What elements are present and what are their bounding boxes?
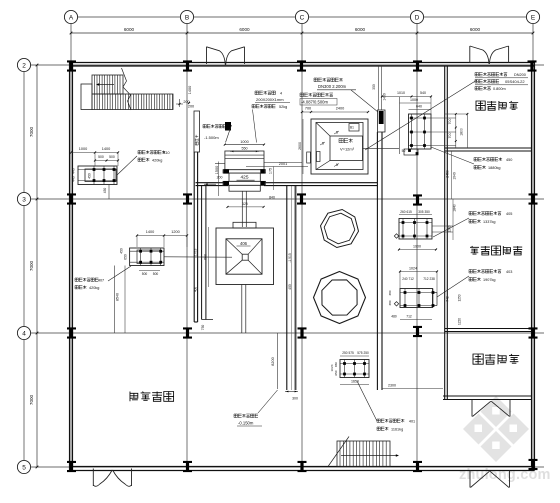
sump room inner: [316, 123, 363, 170]
leader 405: [433, 218, 469, 237]
foundation 450 bolts: [410, 117, 413, 120]
column C3: [297, 193, 306, 204]
svg-text:6000: 6000: [470, 27, 481, 32]
stair arrow line: [341, 455, 396, 457]
svg-text:300: 300: [292, 397, 298, 401]
pad 406 center square: [242, 254, 248, 260]
stair upper flight: [92, 75, 123, 94]
svg-text:840: 840: [269, 196, 275, 200]
foundation 410 grid lines: [93, 166, 95, 185]
svg-text:500: 500: [153, 272, 159, 276]
svg-text:1000: 1000: [79, 147, 87, 151]
foundation 407 inner: [137, 250, 161, 264]
grid bubble E: [526, 10, 539, 23]
top dimension chain: [71, 32, 533, 34]
foundation 450 dims: [382, 96, 431, 98]
octagon tank 1 outer: [321, 210, 359, 248]
svg-text:-4.087/0.500m: -4.087/0.500m: [301, 100, 329, 105]
svg-text:405: 405: [506, 212, 512, 216]
pipe left of motor: [215, 162, 225, 164]
room label maintenance area: [130, 392, 138, 402]
exterior wall top: [70, 62, 535, 64]
svg-text:550: 550: [242, 147, 248, 151]
svg-text:8540: 8540: [116, 293, 120, 301]
svg-text:05S404-22: 05S404-22: [505, 79, 525, 84]
svg-text:350: 350: [372, 84, 376, 90]
svg-text:1040: 1040: [453, 172, 457, 180]
wall W7 pump bay right: [286, 185, 288, 390]
grid line 5: [31, 466, 544, 468]
svg-text:E: E: [531, 15, 536, 22]
svg-text:260 615: 260 615: [400, 210, 412, 214]
column D4: [413, 326, 422, 337]
svg-text:407: 407: [98, 279, 104, 283]
note 450 pump: [474, 158, 502, 162]
door bottom A-B: [92, 469, 94, 487]
svg-text:401: 401: [409, 420, 415, 424]
svg-text:406: 406: [240, 241, 248, 246]
svg-text:1220: 1220: [458, 318, 462, 325]
svg-text:400: 400: [288, 284, 292, 290]
watermark logo: [463, 396, 529, 462]
foundation 405 grid: [402, 219, 404, 240]
shaft rect on W10 top: [378, 110, 386, 132]
foundation 403 grid: [404, 289, 406, 308]
transformer room dim 700/700/1800: [445, 113, 468, 115]
note pump elevation: [300, 93, 333, 97]
svg-text:B1: B1: [350, 126, 354, 130]
svg-text:D: D: [415, 15, 420, 22]
sump room outer: [311, 119, 368, 174]
dim 8200: [277, 333, 279, 389]
leader 407: [108, 266, 131, 281]
svg-text:420kg: 420kg: [152, 159, 162, 163]
bubble connector top: [78, 16, 526, 18]
svg-text:-0.150m: -0.150m: [238, 421, 254, 426]
svg-text:6000: 6000: [355, 27, 366, 32]
note 401: [377, 419, 404, 422]
exterior wall bottom: [70, 470, 535, 472]
pad 406 diagonals: [226, 239, 242, 254]
grid bubble A: [64, 10, 77, 23]
column C4: [298, 327, 307, 338]
svg-text:2300: 2300: [388, 384, 396, 388]
svg-text:B: B: [185, 15, 189, 22]
grid line B: [186, 24, 188, 471]
grid bubble B: [180, 10, 193, 23]
svg-text:1400: 1400: [102, 147, 110, 151]
wall W6 pump bay left: [193, 152, 195, 322]
foundation 403 dims: [400, 271, 437, 273]
svg-text:A: A: [69, 15, 74, 22]
note 403 pump: [469, 270, 501, 274]
svg-text:500: 500: [109, 155, 115, 159]
door top B-C: [206, 47, 208, 64]
wall W6b second pair: [201, 186, 203, 320]
octagon tank 2 inner: [322, 280, 357, 315]
foundation 410 outer: [78, 166, 117, 185]
pipe below pad: [241, 285, 243, 334]
stair lower flight: [92, 94, 173, 110]
dim 8540: [114, 266, 116, 334]
pad 406 plinth: [233, 222, 256, 228]
grid line E: [532, 24, 534, 471]
F5 extension line down: [124, 266, 126, 334]
sump leader right: [363, 147, 400, 149]
leader 403: [437, 276, 469, 297]
svg-text:575 250: 575 250: [357, 351, 369, 355]
grid line 2: [31, 64, 544, 66]
column A4: [67, 327, 76, 338]
grid bubble 3: [17, 192, 30, 205]
foundation 405 outer: [399, 219, 432, 240]
grid bubble 2: [17, 58, 30, 71]
leader 401: [357, 381, 377, 421]
svg-text:1400: 1400: [383, 93, 387, 101]
svg-text:1400: 1400: [146, 230, 154, 234]
svg-text:DN200: DN200: [514, 73, 526, 77]
column A5: [67, 461, 76, 472]
svg-text:450: 450: [506, 158, 512, 162]
stair dim 200: [176, 103, 183, 105]
note insulation box: [255, 91, 275, 95]
svg-text:700: 700: [305, 107, 311, 111]
grid line C: [301, 24, 303, 471]
leader 450 pump: [431, 147, 474, 164]
pad leader from F5: [164, 256, 232, 258]
svg-text:1024: 1024: [409, 267, 417, 271]
foundation 405 dims: [399, 214, 432, 216]
column C2: [297, 60, 306, 71]
room label HV distribution room: [470, 246, 479, 254]
svg-text:-1.500m: -1.500m: [204, 135, 219, 140]
pier label -1.500: [195, 135, 198, 145]
stair top-left landing: [81, 84, 92, 110]
column E3: [529, 193, 538, 204]
svg-text:1161kg: 1161kg: [391, 428, 403, 432]
leader DN300: [351, 90, 378, 112]
svg-text:1200: 1200: [171, 230, 179, 234]
sump left dim: [302, 119, 304, 174]
svg-text:52kg: 52kg: [279, 105, 287, 109]
wall W3 top of bottom transformer room: [445, 328, 532, 330]
grid bubble 5: [17, 460, 30, 473]
svg-text:700: 700: [448, 119, 452, 125]
pipe line to C: [264, 162, 302, 164]
wall W2 bottom of top transformer room: [445, 147, 532, 149]
svg-text:400: 400: [193, 287, 197, 293]
svg-text:2600: 2600: [298, 142, 302, 150]
svg-text:440: 440: [72, 168, 76, 174]
sump niche rects: [307, 152, 311, 163]
svg-text:450: 450: [88, 173, 92, 179]
sump text: [339, 139, 353, 143]
grid line 4: [31, 332, 544, 334]
foundation 450 grid: [411, 114, 413, 149]
pump 425 body: [229, 173, 260, 181]
column B5: [183, 461, 192, 472]
column D2: [413, 60, 422, 71]
svg-text:250 575: 250 575: [342, 351, 354, 355]
foundation 403 outer: [400, 289, 433, 308]
door bottom D-E exterior: [469, 470, 471, 488]
svg-text:1000: 1000: [410, 98, 418, 102]
bubble connector left: [23, 72, 25, 460]
svg-text:2400: 2400: [336, 107, 344, 111]
svg-text:750: 750: [201, 325, 205, 331]
column C5: [298, 461, 307, 472]
foundation 407 grid: [140, 248, 142, 266]
sump small box top: [349, 124, 359, 132]
svg-text:640: 640: [416, 105, 422, 109]
foundation 407 bolts: [139, 250, 142, 253]
pad 406 inner: [226, 239, 262, 274]
svg-text:380: 380: [388, 290, 392, 295]
svg-text:1800: 1800: [460, 128, 464, 136]
svg-text:1250: 1250: [458, 294, 462, 301]
svg-text:7000: 7000: [29, 394, 34, 405]
svg-text:200: 200: [188, 105, 194, 109]
door transformer room bottom: [471, 400, 473, 417]
svg-text:-1.015: -1.015: [288, 253, 292, 263]
svg-text:V=12m³: V=12m³: [340, 147, 355, 152]
svg-text:380: 380: [388, 300, 392, 305]
exterior wall left: [69, 63, 71, 471]
foundation 450 right dims: [431, 117, 456, 119]
note 450 inlet DN200 top right: [475, 73, 507, 77]
column A3: [67, 193, 76, 204]
pipe down to pad: [241, 191, 243, 227]
svg-text:2450: 2450: [446, 170, 450, 178]
foundation 403 extension: [433, 292, 438, 294]
foundation 450 notch: [404, 149, 418, 155]
grid bubble D: [410, 10, 423, 23]
svg-text:1400: 1400: [188, 86, 192, 94]
svg-text:650: 650: [334, 362, 338, 367]
dim 300 W7 end: [285, 391, 298, 393]
svg-text:1880kg: 1880kg: [488, 166, 500, 170]
svg-text:200: 200: [217, 176, 223, 180]
note pipe center DN300: [314, 78, 343, 82]
svg-text:712: 712: [406, 315, 412, 319]
leader insulation: [253, 110, 257, 143]
stair break line: [122, 68, 132, 110]
svg-text:450: 450: [103, 188, 107, 194]
svg-text:420kg: 420kg: [89, 286, 99, 290]
room label transformer room top: [476, 101, 485, 110]
octagon tank 2 outer: [314, 272, 366, 324]
svg-text:5: 5: [22, 465, 26, 472]
foundation 407 outer: [130, 248, 164, 266]
column B4: [183, 327, 192, 338]
svg-text:C: C: [300, 15, 305, 22]
left dimension chain: [36, 65, 38, 467]
svg-text:-1.015: -1.015: [193, 248, 197, 257]
svg-text:650: 650: [334, 370, 338, 375]
foundation 410 dims: [71, 152, 118, 154]
svg-text:712 238: 712 238: [423, 277, 435, 281]
pad 406 outer: [216, 228, 274, 285]
svg-text:6000: 6000: [239, 27, 250, 32]
column E5: [529, 459, 538, 470]
sump dims: [302, 111, 368, 113]
svg-text:742: 742: [446, 296, 450, 302]
column B2: [183, 60, 192, 71]
svg-text:125: 125: [242, 202, 248, 206]
svg-text:2001: 2001: [279, 162, 287, 166]
svg-text:4: 4: [22, 331, 26, 338]
note 405 pump: [469, 212, 501, 216]
pad left dim: [208, 227, 210, 287]
svg-text:540: 540: [420, 91, 426, 95]
stair diagonal: [328, 437, 349, 467]
svg-text:50: 50: [402, 149, 406, 153]
pump 425 motor block: [225, 151, 264, 170]
foundation 450 outer: [409, 114, 432, 149]
foundation 410 inner: [85, 169, 116, 182]
svg-text:450: 450: [120, 248, 124, 254]
column D3: [413, 194, 422, 205]
svg-text:425: 425: [240, 175, 248, 181]
svg-text:1907kg: 1907kg: [483, 278, 495, 282]
foundation 401 grid: [344, 360, 346, 378]
column E2: [528, 60, 537, 71]
svg-text:0.800m: 0.800m: [493, 87, 506, 91]
small pump symbol left: [225, 122, 231, 131]
foundation 403 bolts: [404, 291, 407, 294]
svg-text:7000: 7000: [29, 126, 34, 137]
pump 425 flange row 2: [223, 181, 266, 185]
svg-text:4: 4: [280, 92, 282, 96]
foundation 401 outer: [340, 360, 369, 378]
svg-text:1000: 1000: [240, 140, 248, 144]
grid line D: [416, 24, 418, 471]
svg-text:440: 440: [72, 176, 76, 182]
svg-text:305 350: 305 350: [418, 210, 430, 214]
wall pier grid B sump: [194, 111, 200, 152]
leader floor elevation: [258, 390, 278, 413]
wall W9 horizontal segments: [196, 182, 229, 184]
dim 2300 bottom right: [382, 388, 443, 390]
door top D-E: [469, 46, 471, 63]
foundation 407 dims: [137, 235, 187, 237]
grid line 3: [31, 198, 544, 200]
svg-text:480: 480: [391, 315, 397, 319]
svg-text:1900: 1900: [413, 245, 421, 249]
grid line A: [70, 24, 72, 471]
note 407: [75, 278, 98, 281]
pump 425 dim 1000: [225, 144, 264, 146]
column E4: [529, 327, 538, 338]
svg-text:240 712: 240 712: [402, 277, 414, 281]
svg-text:3: 3: [22, 197, 26, 204]
svg-text:650: 650: [124, 254, 128, 260]
column B3: [183, 193, 192, 204]
foundation 405 bolts: [402, 221, 405, 224]
svg-text:8200: 8200: [271, 357, 275, 365]
octagon tank 1 inner: [324, 213, 355, 244]
note sump borrow: [203, 125, 226, 128]
grid bubble C: [295, 10, 308, 23]
grid bubble 4: [17, 326, 30, 339]
leader 450 inlet long diagonal: [365, 80, 477, 150]
svg-text:DN300 2.200m: DN300 2.200m: [318, 84, 347, 89]
svg-text:410: 410: [163, 151, 169, 155]
pump 425 flange row 1: [223, 170, 266, 173]
foundation 401 bolts: [343, 362, 346, 365]
svg-text:500: 500: [98, 155, 104, 159]
wall W1 left of transformer/HV rooms: [444, 66, 446, 399]
svg-text:1010: 1010: [397, 91, 405, 95]
wall W4 bottom of bottom transformer room: [443, 395, 532, 397]
svg-text:500: 500: [142, 272, 148, 276]
stair bottom-right: [337, 441, 390, 467]
note floor elevation: [234, 414, 258, 418]
svg-text:1024: 1024: [330, 364, 334, 371]
foundation 401 dims: [340, 355, 369, 357]
wall W10 octagon room right: [376, 132, 378, 390]
column D5: [413, 461, 422, 472]
foundation 410 bolts: [93, 168, 96, 171]
stair direction arrow: [98, 84, 115, 86]
sump pit: [330, 136, 363, 161]
svg-text:175: 175: [269, 168, 273, 174]
pump 425 dim 550: [230, 150, 259, 152]
svg-text:1337kg: 1337kg: [483, 220, 495, 224]
note 410: [138, 151, 165, 154]
svg-text:200X200X1mm: 200X200X1mm: [256, 97, 284, 102]
svg-text:6000: 6000: [124, 27, 135, 32]
svg-text:2: 2: [22, 63, 26, 70]
sump slopes: [316, 123, 330, 137]
column A2: [67, 60, 76, 71]
leader 410: [117, 156, 137, 175]
exterior wall right: [534, 63, 536, 471]
svg-text:700: 700: [448, 133, 452, 139]
room label transformer room bottom: [473, 354, 483, 364]
svg-text:7000: 7000: [29, 260, 34, 271]
svg-text:403: 403: [506, 270, 512, 274]
pump 425 bottom rect: [229, 185, 260, 191]
